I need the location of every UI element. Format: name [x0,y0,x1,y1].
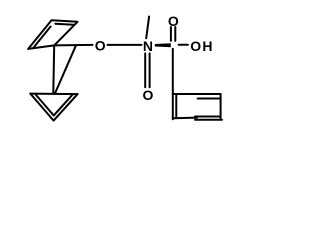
svg-text:OH: OH [190,38,213,54]
svg-text:N: N [143,38,153,54]
svg-text:O: O [143,87,154,103]
svg-text:O: O [168,13,179,29]
svg-text:O: O [95,37,106,53]
